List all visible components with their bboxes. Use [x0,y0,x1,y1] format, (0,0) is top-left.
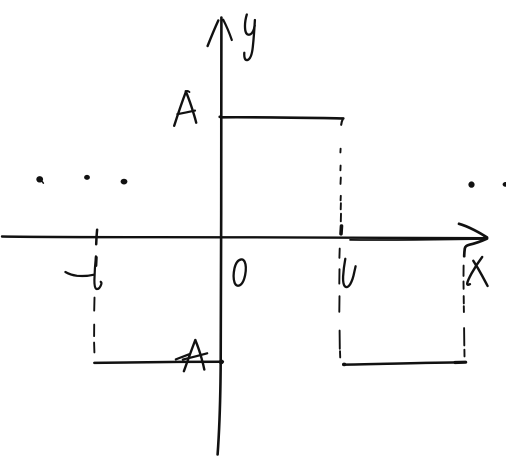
A of -A label: right leg [195,340,204,369]
wave top segment y=A from 0 to l [220,117,344,119]
dashed line at x=-l below axis [93,298,95,353]
y-axis arrowhead left stroke [208,21,219,47]
tick at x=-l on axis [95,230,98,244]
dashed line at x=l above axis [339,149,342,222]
A label on y axis: left leg [174,92,186,126]
left continuation dot 1 [36,176,43,182]
dashed line at x=2l below axis [464,266,465,357]
y label bowl [245,15,255,35]
A of -A label: crossbar [183,353,207,359]
y-axis arrowhead right stroke [223,20,232,40]
left end blob of bottom-right segment [342,363,346,367]
l label at x=l [343,259,356,287]
x-axis arrowhead top stroke [459,224,487,238]
A label apex tick [186,90,189,93]
wave bottom-right segment y=-A from l to 2l [343,362,466,364]
left continuation dot 1 tail [42,182,43,184]
x label stroke 1 [467,257,482,285]
y label stem and tail [244,20,255,60]
x label stroke 2 [473,261,487,286]
dashed line at x=l below axis [338,249,341,358]
y-axis [218,18,222,455]
x-axis arrowhead tip blob [483,236,488,240]
l of -l label [94,256,101,289]
A label on y axis: crossbar [177,111,195,115]
minus of -l label [65,272,94,276]
right end thickening of bottom-right segment [455,361,466,364]
x-axis overlap stroke [350,239,484,240]
x-axis arrowhead bottom stroke [464,239,487,257]
minus of -A label [176,354,189,359]
left continuation dot 3 [121,179,128,185]
wave bottom-left segment y=-A from -l to 0 [94,362,223,363]
hook at top of right dashed line at l [341,119,343,125]
right continuation dot 2 (clipped at edge) [503,182,506,187]
left continuation dot 2 [84,175,90,180]
dash overlap at top of -l [94,258,97,266]
right continuation dot 1 [468,181,474,187]
x-axis [2,237,487,239]
A of -A label: left leg [184,340,195,371]
blob at l on axis [339,226,343,234]
0 label at origin [233,259,246,286]
junction blob at y-axis on bottom-left segment [219,360,224,365]
A label on y axis: right leg [186,91,196,123]
